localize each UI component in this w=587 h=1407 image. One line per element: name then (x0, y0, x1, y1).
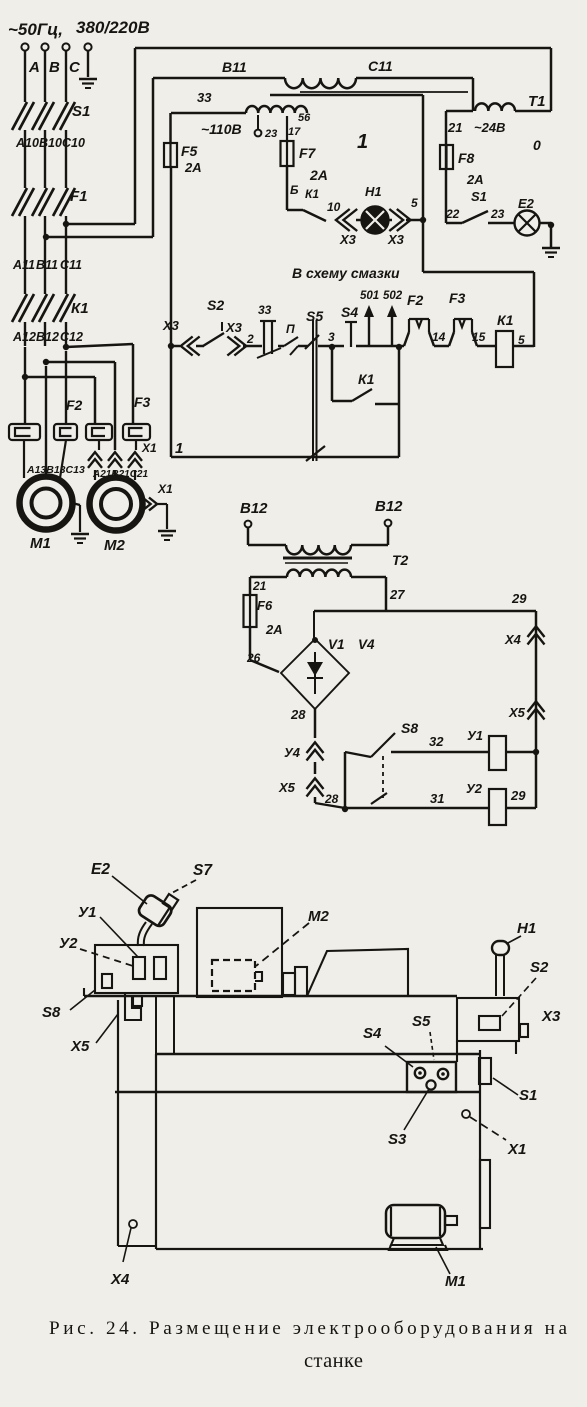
svg-text:Е2: Е2 (518, 196, 535, 211)
svg-text:501: 501 (360, 290, 379, 302)
svg-text:В12: В12 (240, 500, 268, 517)
svg-text:32: 32 (429, 734, 444, 749)
svg-text:502: 502 (383, 290, 403, 302)
svg-text:21: 21 (252, 579, 267, 593)
svg-text:А12: А12 (12, 330, 36, 344)
svg-text:В11: В11 (36, 258, 58, 272)
svg-text:F1: F1 (70, 188, 88, 205)
svg-text:А10: А10 (15, 136, 39, 150)
svg-text:Е2: Е2 (91, 861, 110, 878)
svg-text:2А: 2А (184, 160, 202, 175)
svg-text:С11: С11 (368, 58, 393, 74)
svg-text:29: 29 (510, 788, 526, 803)
svg-text:Х3: Х3 (387, 232, 405, 247)
svg-text:27: 27 (389, 587, 405, 602)
svg-text:У2: У2 (466, 781, 483, 796)
svg-text:Т2: Т2 (392, 552, 409, 568)
svg-text:22: 22 (445, 207, 460, 221)
svg-text:S5: S5 (412, 1013, 431, 1030)
svg-text:В: В (49, 59, 60, 76)
svg-text:S8: S8 (42, 1004, 61, 1021)
svg-text:380/220В: 380/220В (76, 18, 150, 37)
svg-text:S4: S4 (341, 304, 358, 320)
svg-text:2А: 2А (309, 167, 328, 183)
svg-text:Х4: Х4 (504, 632, 522, 647)
svg-text:Х3: Х3 (339, 232, 357, 247)
svg-text:В12: В12 (36, 330, 59, 344)
svg-text:П: П (286, 322, 295, 336)
svg-text:У1: У1 (78, 904, 97, 921)
svg-text:Х1: Х1 (507, 1141, 526, 1158)
svg-text:С10: С10 (62, 136, 85, 150)
svg-text:28: 28 (290, 707, 306, 722)
svg-text:31: 31 (430, 791, 444, 806)
svg-text:F6: F6 (257, 598, 273, 613)
svg-text:1: 1 (175, 440, 183, 457)
svg-text:0: 0 (533, 137, 541, 153)
svg-text:Х5: Х5 (508, 705, 526, 720)
svg-text:33: 33 (197, 90, 212, 105)
svg-text:М1: М1 (30, 535, 51, 552)
svg-text:станке: станке (304, 1350, 363, 1372)
svg-text:1: 1 (357, 131, 368, 153)
svg-text:Х3: Х3 (225, 320, 243, 335)
svg-text:В12: В12 (375, 498, 403, 515)
svg-text:Х1: Х1 (157, 482, 173, 496)
svg-text:Н1: Н1 (517, 920, 536, 937)
svg-text:Х3: Х3 (162, 318, 180, 333)
svg-text:Х1: Х1 (141, 441, 157, 455)
svg-text:2: 2 (246, 332, 254, 346)
svg-text:14: 14 (432, 330, 446, 344)
svg-text:F3: F3 (449, 290, 466, 306)
svg-text:В11: В11 (222, 59, 247, 75)
svg-text:Н1: Н1 (365, 184, 382, 199)
svg-text:К1: К1 (497, 312, 514, 328)
svg-text:У1: У1 (467, 728, 483, 743)
svg-text:М1: М1 (445, 1273, 466, 1290)
svg-text:28: 28 (324, 792, 339, 806)
svg-text:S7: S7 (193, 862, 213, 879)
svg-text:F2: F2 (66, 397, 83, 413)
svg-text:S4: S4 (363, 1025, 382, 1042)
svg-text:С12: С12 (60, 330, 83, 344)
svg-text:2А: 2А (466, 172, 484, 187)
svg-text:А11: А11 (12, 258, 35, 272)
svg-text:S1: S1 (471, 189, 487, 204)
svg-text:15: 15 (472, 330, 486, 344)
svg-text:~110В: ~110В (201, 121, 242, 137)
svg-text:К1: К1 (358, 371, 375, 387)
svg-text:10: 10 (327, 200, 341, 214)
svg-text:V4: V4 (358, 637, 375, 652)
svg-text:V1: V1 (328, 637, 345, 652)
svg-text:~24В: ~24В (474, 120, 505, 135)
svg-text:23: 23 (490, 207, 505, 221)
svg-text:К1: К1 (71, 300, 89, 317)
svg-text:С11: С11 (60, 258, 82, 272)
svg-text:Т1: Т1 (528, 93, 546, 110)
svg-text:F8: F8 (458, 150, 475, 166)
svg-text:S1: S1 (72, 103, 90, 120)
svg-text:23: 23 (264, 128, 277, 140)
svg-text:S2: S2 (207, 297, 224, 313)
svg-text:К1: К1 (305, 187, 319, 201)
svg-text:33: 33 (258, 303, 272, 317)
svg-text:Х5: Х5 (70, 1038, 90, 1055)
svg-text:У2: У2 (59, 935, 78, 952)
svg-text:F2: F2 (407, 292, 424, 308)
svg-text:С: С (69, 59, 81, 76)
svg-text:В10: В10 (39, 136, 62, 150)
svg-text:А13В13С13: А13В13С13 (26, 464, 85, 476)
svg-text:S3: S3 (388, 1131, 407, 1148)
svg-text:Х5: Х5 (278, 780, 296, 795)
svg-text:F7: F7 (299, 145, 317, 161)
svg-text:S5: S5 (306, 308, 323, 324)
svg-text:М2: М2 (308, 908, 329, 925)
svg-text:17: 17 (288, 126, 301, 138)
svg-text:5: 5 (411, 196, 418, 210)
svg-text:2А: 2А (265, 622, 283, 637)
svg-text:29: 29 (511, 591, 527, 606)
svg-text:В схему смазки: В схему смазки (292, 265, 400, 281)
svg-text:М2: М2 (104, 537, 125, 554)
svg-text:S1: S1 (519, 1087, 537, 1104)
svg-text:Х4: Х4 (110, 1271, 130, 1288)
svg-text:F5: F5 (181, 143, 198, 159)
svg-text:3: 3 (328, 330, 335, 344)
svg-text:У4: У4 (284, 745, 301, 760)
svg-text:S2: S2 (530, 959, 549, 976)
svg-text:А: А (28, 59, 40, 76)
svg-text:56: 56 (298, 112, 311, 124)
svg-text:21: 21 (447, 120, 462, 135)
svg-text:S8: S8 (401, 720, 418, 736)
svg-text:Б: Б (290, 183, 299, 197)
svg-text:Х3: Х3 (541, 1008, 561, 1025)
svg-text:F3: F3 (134, 394, 151, 410)
svg-text:~50Гц,: ~50Гц, (8, 20, 63, 39)
svg-text:Рис. 24. Размещение электрообо: Рис. 24. Размещение электрооборудования … (49, 1318, 567, 1339)
